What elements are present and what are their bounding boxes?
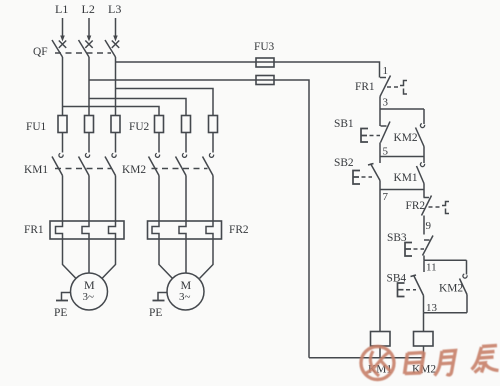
ground PE motor1 label (54, 307, 67, 319)
thermal contact FR2 trip symbol (442, 202, 449, 214)
fuse FU2 a (155, 116, 164, 133)
breaker QF pole 2 blade (79, 40, 90, 57)
contactor KM2 linkage dashed (152, 168, 208, 170)
svg-text:M: M (181, 278, 192, 292)
wire L3 arrow (113, 18, 118, 42)
thermal relay FR1 heater pole1 (56, 221, 63, 239)
fuse FU1 label (26, 121, 47, 133)
button SB3 blade (423, 236, 434, 256)
thermal relay FR2 heater pole2 (179, 221, 186, 239)
button SB3 dashes (414, 248, 425, 250)
ground PE motor2 (153, 293, 168, 301)
button SB3 tick (424, 239, 430, 241)
motor M1 label (83, 278, 96, 303)
wire SB4 to node13 (423, 296, 425, 313)
wire SB3 to node11 (423, 256, 425, 261)
node 13 label (426, 302, 438, 314)
button SB1 label (334, 118, 354, 130)
breaker QF pole 3 blade (105, 40, 116, 57)
wire L2 branch to FU2 fuse2 (89, 99, 186, 116)
wire bottom bus (309, 357, 424, 359)
thermal relay FR2 label (229, 224, 249, 236)
watermark logo circle (361, 347, 394, 380)
wire phase1 vertical (62, 57, 64, 116)
thermal contact FR1 dashes (387, 86, 400, 88)
button SB2 actuator E (353, 171, 360, 185)
svg-text:FR1: FR1 (355, 81, 375, 93)
contactor KM2 aux 2 label (439, 283, 463, 295)
watermark text 日 (405, 352, 425, 374)
wire KM1 pole2 to FR1 (88, 176, 90, 222)
svg-text:3~: 3~ (179, 291, 191, 303)
thermal relay FR1 label (24, 224, 44, 236)
node 7 label (383, 191, 389, 203)
watermark text 辰 (472, 346, 499, 373)
wire fuse to KM1 pole3 (115, 133, 117, 153)
button SB4 dashes (406, 289, 416, 291)
contactor KM1 main contact pole2 (79, 153, 90, 175)
ground PE motor2 label (149, 307, 162, 319)
wire node3 branch (380, 108, 424, 110)
svg-text:KM2: KM2 (439, 283, 463, 295)
wire node13 to KM2 coil (423, 313, 425, 332)
control FR1 label (355, 81, 375, 93)
wire fuse to KM2 pole1 (158, 133, 160, 153)
svg-text:FR2: FR2 (406, 200, 426, 212)
wire node1 to node3 (379, 97, 381, 110)
svg-text:SB3: SB3 (387, 232, 407, 244)
contactor KM1 main contact pole1 (52, 153, 63, 175)
svg-text:PE: PE (54, 307, 67, 319)
wire fuse to KM1 pole1 (62, 133, 64, 153)
button SB2 dashes (362, 176, 373, 178)
wire SB2 to node7 (379, 181, 381, 190)
wire node7 to FR2 (423, 190, 425, 198)
node 1 label (383, 65, 389, 77)
breaker QF linkage dashed (55, 52, 111, 54)
button SB3 actuator E (405, 243, 412, 257)
svg-text:9: 9 (426, 220, 432, 232)
contactor KM2 main contact pole1 (149, 153, 160, 175)
wire KM1 pole3 to FR1 (115, 176, 117, 222)
button SB4 actuator E (398, 283, 405, 297)
thermal contact FR1 fixed tick (380, 77, 386, 79)
svg-text:3: 3 (383, 97, 389, 109)
contactor KM2 aux label (394, 132, 418, 144)
wire FR1 to motor1 right (102, 239, 115, 278)
fuse FU3 label (254, 41, 275, 53)
svg-text:3~: 3~ (83, 291, 95, 303)
wire KM1 coil to bus (379, 346, 381, 358)
button SB4 label (387, 273, 407, 285)
svg-text:SB1: SB1 (334, 118, 354, 130)
wire FR2 to motor2 mid (185, 239, 187, 273)
node 5 label (383, 146, 389, 158)
svg-text:KM2: KM2 (122, 164, 146, 176)
svg-text:PE: PE (149, 307, 162, 319)
svg-text:M: M (84, 278, 95, 292)
fuse FU2 c (209, 116, 218, 133)
breaker QF pole 2 contact X (85, 41, 92, 48)
wire node7 down to KM1 coil (379, 190, 381, 332)
coil KM1 (371, 332, 391, 347)
thermal contact FR1 trip symbol (400, 81, 407, 95)
thermal relay FR2 heater pole1 (152, 221, 159, 239)
breaker QF label (33, 46, 48, 58)
svg-text:FU2: FU2 (129, 121, 150, 133)
button SB3 label (387, 232, 407, 244)
breaker QF pole 1 blade (52, 40, 63, 57)
thermal contact FR2 label (406, 200, 426, 212)
wire KM2 pole1 to FR2 (158, 176, 160, 222)
wire fuse to KM2 pole3 (212, 133, 214, 153)
button SB1 blade (381, 122, 391, 143)
contactor KM1 label (24, 164, 48, 176)
thermal relay FR2 box (148, 221, 222, 239)
wire L1 branch to FU2 fuse1 (63, 107, 160, 116)
svg-text:KM2: KM2 (394, 132, 418, 144)
svg-text:FU3: FU3 (254, 41, 275, 53)
node 9 label (426, 220, 432, 232)
coil KM2 (414, 332, 434, 347)
coil KM2 label (412, 364, 436, 376)
svg-text:KM1: KM1 (394, 172, 418, 184)
wire node5 branch (380, 156, 424, 158)
thermal relay FR1 box (50, 221, 124, 239)
fuse FU1 c (111, 116, 120, 133)
wire L2 arrow (87, 18, 92, 42)
wire phase3 vertical (115, 57, 117, 116)
thermal contact FR2 dashes (429, 206, 442, 208)
wire node3 to SB1 (379, 109, 381, 126)
contactor KM2 main contact pole2 (176, 153, 187, 175)
thermal relay FR2 heater pole3 (206, 221, 213, 239)
wire phase2 vertical (88, 57, 90, 116)
wire L1 arrow (60, 18, 65, 42)
fuse FU3 a (256, 58, 274, 67)
thermal contact FR1 blade (380, 76, 391, 97)
thermal relay FR1 heater pole3 (109, 221, 116, 239)
contactor KM2 label (122, 164, 146, 176)
node L2 (82, 2, 95, 16)
svg-text:FR2: FR2 (229, 224, 249, 236)
watermark text 月 (435, 351, 456, 376)
button SB4 tick (411, 275, 417, 277)
svg-text:L1: L1 (55, 2, 68, 16)
button SB2 blade (371, 164, 381, 181)
button SB2 tick (368, 164, 374, 166)
svg-text:7: 7 (383, 191, 389, 203)
wire FR2 to SB3 (423, 216, 425, 235)
contactor KM2 main contact pole3 (203, 153, 214, 175)
breaker QF pole 1 contact X (59, 41, 66, 48)
wire node13 branch (424, 312, 468, 314)
button SB1 actuator E (361, 129, 368, 143)
motor M2 label (179, 278, 192, 303)
wire node5 to SB2 top (379, 157, 381, 164)
button SB1 tick (381, 125, 387, 127)
wire fuse to KM1 pole2 (88, 133, 90, 153)
wire FR1 to motor1 mid (88, 239, 90, 273)
wire FR2 to motor2 right (200, 239, 213, 278)
breaker QF pole 3 contact X (112, 41, 119, 48)
wire node11 to SB4 (423, 260, 425, 272)
button SB1 dashes (370, 135, 381, 137)
wire node7 branch (380, 189, 424, 191)
thermal contact FR2 blade (422, 196, 432, 216)
fuse FU3 b (256, 76, 274, 85)
svg-text:FU1: FU1 (26, 121, 47, 133)
fuse FU2 b (182, 116, 191, 133)
button SB2 label (334, 157, 354, 169)
fuse FU1 b (85, 116, 94, 133)
svg-text:KM1: KM1 (24, 164, 48, 176)
wire SB1 to node5 (379, 143, 381, 157)
contactor KM2 aux contact (seal-in) (416, 109, 425, 157)
wire KM2 coil to bus (423, 346, 425, 358)
svg-text:L3: L3 (108, 2, 121, 16)
svg-text:1: 1 (383, 65, 389, 77)
motor M2 (167, 273, 204, 310)
fuse FU2 label (129, 121, 150, 133)
svg-text:L2: L2 (82, 2, 95, 16)
svg-text:QF: QF (33, 46, 48, 58)
wire fuse to KM2 pole2 (185, 133, 187, 153)
svg-text:SB2: SB2 (334, 157, 354, 169)
contactor KM1 aux label (394, 172, 418, 184)
wire KM2 pole2 to FR2 (185, 176, 187, 222)
motor M1 (71, 273, 108, 310)
wire FR1 to motor1 left (63, 239, 76, 278)
node 3 label (383, 97, 389, 109)
svg-text:5: 5 (383, 146, 389, 158)
wire node11 branch (424, 259, 467, 261)
coil KM1 label (368, 364, 392, 376)
fuse FU1 a (58, 116, 67, 133)
svg-text:FR1: FR1 (24, 224, 44, 236)
contactor KM1 aux contact (seal-in) (417, 157, 425, 190)
wire FR2 to motor2 left (159, 239, 172, 278)
thermal contact FR2 fixed tick (424, 197, 430, 199)
thermal relay FR1 heater pole2 (82, 221, 89, 239)
contactor KM1 main contact pole3 (105, 153, 116, 175)
button SB4 blade (414, 275, 424, 296)
wire KM1 pole1 to FR1 (62, 176, 64, 222)
node L1 (55, 2, 68, 16)
svg-text:11: 11 (426, 262, 437, 274)
wire KM2 pole3 to FR2 (212, 176, 214, 222)
wire L2 branch to FU3 bottom and left rail (89, 80, 309, 358)
contactor KM1 linkage dashed (55, 168, 111, 170)
contactor KM2 aux contact 2 (460, 260, 468, 313)
wire L3 branch to FU3 top (116, 62, 380, 78)
node L3 (108, 2, 121, 16)
node 11 label (426, 262, 437, 274)
ground PE motor1 (56, 293, 71, 301)
wire L3 branch to FU2 fuse3 (116, 89, 214, 116)
